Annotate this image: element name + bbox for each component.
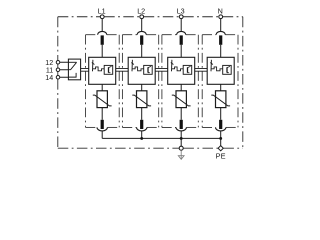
module 3 triggered spark gap box: [168, 57, 195, 84]
electrode line: [92, 60, 94, 72]
varistor characteristic diagonal: [132, 95, 151, 106]
wire spark-gap box to varistor: [141, 84, 143, 91]
module 3 frame left edge: [161, 35, 163, 128]
module 2 bottom plug contact arc: [137, 127, 147, 131]
module 2 thermal disconnect (top): [140, 35, 143, 44]
module 3 frame bottom edge segments: [162, 126, 176, 128]
wire disconnect to spark-gap box: [220, 45, 222, 58]
enclosure frame bottom edge (interrupted by earth terminal and PE terminal): [58, 147, 179, 149]
svg-text:L2: L2: [137, 6, 145, 15]
module 1 frame top edge segments: [86, 34, 98, 36]
module 3 top plug contact arc: [177, 31, 186, 34]
wire terminal 11 to FM contact box: [60, 69, 69, 71]
spark gap element box: [183, 65, 192, 74]
module 3 frame right edge: [197, 35, 199, 128]
varistor characteristic diagonal: [211, 95, 230, 106]
wire disconnect to spark-gap box: [180, 45, 182, 58]
varistor characteristic diagonal: [93, 95, 112, 106]
inter-module connector 3-4 (upper): [195, 68, 208, 70]
bus junction at x=181.2: [180, 137, 183, 140]
trigger step waveform: [172, 67, 183, 71]
inter-module connector 1-2 (lower): [116, 70, 129, 72]
wire bus down to earth terminal: [180, 138, 182, 146]
module 1 bottom plug contact arc: [97, 127, 107, 130]
svg-text:L1: L1: [98, 6, 106, 15]
inter-module connector 2-3 (upper): [155, 68, 168, 70]
spark gap electrode bar: [187, 67, 189, 72]
inter-module connector 2-3 (lower): [155, 70, 168, 72]
contact 11 common blade: [68, 62, 76, 69]
wire varistor to bottom disconnect: [220, 108, 222, 120]
stub contact arc to PE bus: [220, 131, 222, 139]
wire varistor to bottom disconnect: [141, 108, 143, 120]
terminal N: [219, 15, 223, 19]
inter-module connector 1-2 (upper): [116, 68, 129, 70]
module 3 thermal disconnect (top): [180, 35, 183, 44]
stub contact arc to PE bus: [101, 131, 103, 139]
spark gap element box: [144, 65, 153, 74]
varistor characteristic diagonal: [172, 95, 191, 106]
module 4 frame left edge: [201, 35, 203, 128]
module 4 triggered spark gap box: [207, 57, 234, 84]
trigger step waveform: [211, 67, 222, 71]
module 2 thermal disconnect (bottom): [140, 120, 143, 129]
module 1 frame left edge: [85, 35, 87, 128]
earth electrode arrowhead: [178, 156, 184, 160]
terminal 11: [56, 68, 60, 72]
module 4 frame right edge: [237, 35, 239, 128]
module 1 frame right edge: [118, 35, 120, 128]
svg-text:PE: PE: [216, 151, 226, 160]
inter-module connector 3-4 (lower): [195, 70, 208, 72]
spark gap foot: [148, 72, 150, 74]
spark gap electrode bar: [226, 67, 228, 72]
module 1 top plug contact arc: [98, 31, 107, 34]
electrode line: [171, 60, 173, 72]
wire terminal L1 down to plug contact: [101, 19, 103, 32]
varistor body module 3: [176, 91, 186, 108]
wire disconnect to spark-gap box: [101, 45, 103, 58]
spark gap top diagonal: [188, 66, 191, 67]
module 1 thermal disconnect (top): [101, 35, 104, 44]
bus junction at x=220.7: [219, 137, 222, 140]
module 2 frame left edge: [121, 35, 123, 128]
spark gap element box: [104, 65, 113, 74]
electrode tick: [131, 63, 134, 65]
terminal 12: [56, 61, 60, 65]
wire varistor to bottom disconnect: [101, 108, 103, 120]
trigger step waveform: [132, 67, 143, 71]
electrode tick: [92, 63, 95, 65]
spark gap foot: [227, 72, 229, 74]
electrode line: [210, 60, 212, 72]
stub contact arc to PE bus: [141, 131, 143, 139]
module 1 triggered spark gap box: [89, 57, 116, 84]
PE terminal (diamond): [218, 146, 223, 151]
mechanical link FM box to module 1 (upper): [81, 68, 89, 70]
svg-text:L3: L3: [177, 6, 185, 15]
contact 14 open contact: [68, 73, 76, 77]
module 4 frame bottom edge segments: [202, 126, 215, 128]
module 4 bottom plug contact arc: [216, 127, 226, 130]
varistor body module 4: [216, 91, 226, 108]
module 2 triggered spark gap box: [128, 57, 155, 84]
module 2 frame right edge: [158, 35, 160, 128]
wire terminal L2 down to plug contact: [141, 19, 143, 32]
enclosure frame left edge (interrupted by terminals 12 11 14): [57, 17, 59, 61]
earth terminal: [179, 146, 183, 150]
module 4 thermal disconnect (bottom): [219, 120, 222, 129]
svg-text:N: N: [218, 6, 223, 15]
svg-text:14: 14: [45, 74, 53, 82]
module 2 top plug contact arc: [137, 31, 146, 34]
wire terminal N down to plug contact: [220, 19, 222, 32]
trigger step waveform: [93, 67, 104, 71]
earth electrode stem: [180, 150, 182, 158]
spark gap element box: [223, 65, 232, 74]
module 3 bottom plug contact arc: [176, 127, 186, 131]
terminal L1: [100, 15, 104, 19]
wire varistor to bottom disconnect: [180, 108, 182, 120]
terminal L2: [140, 15, 144, 19]
electrode tick: [171, 63, 174, 65]
wire terminal 14 to FM contact box: [60, 76, 69, 78]
spark gap electrode bar: [108, 67, 110, 72]
module 3 thermal disconnect (bottom): [180, 120, 183, 129]
spark gap top diagonal: [227, 66, 230, 67]
enclosure frame right edge: [242, 17, 244, 148]
spark gap top diagonal: [109, 66, 112, 67]
bus junction at x=141.7: [140, 137, 143, 140]
varistor body module 1: [97, 91, 107, 108]
module 2 frame top edge segments: [122, 34, 137, 36]
PE bus: [102, 137, 221, 139]
wire bus down to PE terminal: [220, 138, 222, 145]
wire spark-gap box to varistor: [101, 84, 103, 91]
terminal 14: [56, 76, 60, 80]
wire spark-gap box to varistor: [180, 84, 182, 91]
contact 12 fixed bar: [68, 61, 76, 63]
module 2 frame bottom edge segments: [122, 126, 136, 128]
varistor body module 2: [137, 91, 147, 108]
module 1 thermal disconnect (bottom): [101, 120, 104, 129]
module 4 frame top edge segments: [202, 34, 216, 36]
spark gap foot: [188, 72, 190, 74]
wire disconnect to spark-gap box: [141, 45, 143, 58]
electrode tick: [210, 63, 213, 65]
FM remote signalling changeover contact box: [68, 59, 80, 80]
enclosure frame top edge (dash-dot, interrupted by terminals L1 L2 L3 N): [58, 16, 100, 18]
stub contact arc to PE bus: [180, 131, 182, 139]
module 4 thermal disconnect (top): [219, 35, 222, 44]
mechanical link FM box to module 1 (lower): [81, 70, 89, 72]
wire spark-gap box to varistor: [220, 84, 222, 91]
terminal L3: [179, 15, 183, 19]
wire terminal L3 down to plug contact: [180, 19, 182, 32]
module 3 frame top edge segments: [162, 34, 177, 36]
electrode line: [131, 60, 133, 72]
wire terminal 12 to FM contact box: [60, 61, 69, 63]
spark gap foot: [109, 72, 111, 74]
module 1 frame bottom edge segments: [86, 126, 98, 128]
spark gap electrode bar: [147, 67, 149, 72]
module 4 top plug contact arc: [216, 31, 225, 34]
spark gap top diagonal: [148, 66, 151, 67]
